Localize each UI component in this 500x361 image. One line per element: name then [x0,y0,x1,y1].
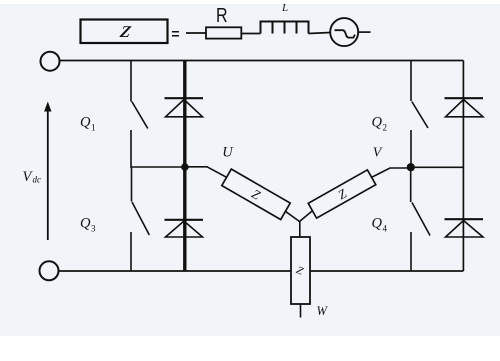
center node stub [299,222,301,238]
svg-text:Q: Q [372,115,383,131]
svg-text:Q: Q [372,216,383,232]
terminal top-left [41,52,60,71]
diode D4 [445,219,484,237]
diode D2 [445,98,484,117]
switch Q2 [411,61,428,168]
svg-text:3: 3 [91,224,96,234]
Vdc arrow [44,102,51,241]
wire switch to bus [131,166,185,168]
switch Q4 [411,168,430,272]
svg-text:L: L [281,2,288,14]
svg-text:Q: Q [80,216,91,232]
phase impedance Z (U leg) [222,169,290,219]
wire resistor to inductor [241,33,260,35]
legend impedance box Z [81,20,168,44]
bottom rail wire [59,270,464,272]
right leg wire [462,61,464,272]
wire U node to phase box [185,167,227,178]
wire V box to V node [372,168,411,177]
svg-text:dc: dc [33,175,42,185]
phase impedance Z (W leg) [291,237,310,304]
wire inductor to source [309,33,331,34]
wire source right stub [358,31,370,33]
thick bus wire [183,61,186,272]
wire legend left [186,32,206,34]
svg-text:V: V [373,146,383,161]
switch Q3 [131,168,149,271]
svg-text:=: = [171,25,179,41]
node V dot [407,163,415,171]
AC source [330,18,358,46]
svg-text:1: 1 [91,123,96,133]
svg-text:W: W [317,304,329,318]
diode D1 [165,98,204,117]
wire V node to right leg [411,166,464,168]
wire W stub [300,304,302,318]
diode D3 [165,220,204,237]
phase impedance Z (V leg) [308,170,376,218]
top rail wire [60,60,464,62]
svg-text:4: 4 [383,224,388,234]
svg-text:U: U [222,145,234,161]
switch Q1 [131,61,148,169]
wire Z to center node [285,211,299,221]
terminal bottom-left [40,261,59,280]
svg-text:2: 2 [383,123,388,133]
inductor L [261,22,309,34]
resistor R [206,27,241,38]
node U dot [181,163,189,171]
svg-text:Q: Q [80,115,91,131]
svg-text:R: R [216,4,228,26]
wire V box to center node [300,211,313,222]
